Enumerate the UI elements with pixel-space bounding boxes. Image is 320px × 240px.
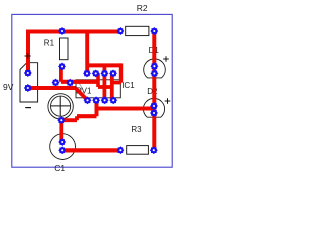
wire: y116 left to RV1 wiper column — [77, 114, 97, 118]
diode D2 outline — [143, 98, 164, 117]
wire: horizontal y65 branch — [87, 63, 121, 67]
wire: y87 link — [98, 85, 112, 89]
pads: battery — [24, 69, 32, 77]
wire: R1 bottom to bar — [59, 67, 63, 82]
pads: RV1 — [52, 79, 60, 87]
pads: D2 — [150, 102, 158, 110]
wire: IC pin column T4-B4 — [110, 74, 114, 101]
pads: R1 — [58, 27, 66, 35]
wire: IC pin column T3-B3 — [103, 65, 107, 100]
wire: branch to D2 at y108.5 — [97, 106, 155, 110]
wire: jog left at y82.6 — [112, 81, 121, 85]
wire: right rail R2 to R3 through D1 D2 — [152, 31, 156, 150]
pads: IC1 top row — [83, 69, 91, 77]
wire: diagonal to IC B1 — [76, 88, 88, 100]
svg-text:R3: R3 — [131, 125, 142, 134]
trimmer RV1 outer circle — [48, 94, 73, 119]
wire: top 9V+ rail — [26, 30, 120, 34]
wire: wiper down to C1 — [59, 120, 63, 142]
wire: battery - to RV1 left pad — [28, 86, 76, 90]
resistor R2 body — [126, 26, 149, 35]
svg-text:9V: 9V — [3, 82, 14, 92]
svg-text:R2: R2 — [137, 3, 148, 13]
wire: down at x121 — [119, 63, 123, 82]
trimmer RV1 inner circle — [51, 96, 71, 116]
pads: R2 — [116, 27, 124, 35]
svg-text:R1: R1 — [44, 39, 55, 48]
wire: C1 to R3 — [62, 148, 120, 152]
capacitor C1 outline — [50, 134, 76, 160]
trimmer RV1 slot cross — [51, 96, 71, 116]
svg-text:C1: C1 — [54, 163, 65, 173]
resistor R1 body — [60, 38, 69, 60]
wire: T2 stub down — [96, 73, 100, 87]
wire: rail branch down at x87 to IC pin T1 — [85, 32, 89, 74]
pads: D1 — [150, 62, 158, 70]
pads: R3 — [116, 146, 124, 154]
pads: IC1 bottom row — [84, 96, 92, 104]
diode D1 plus mark — [163, 56, 169, 62]
diode D1 outline — [144, 59, 166, 78]
battery plus mark — [25, 53, 31, 59]
IC1 pin-1 notch — [76, 83, 81, 94]
wire: battery + drop — [26, 33, 30, 73]
pads: C1 — [58, 138, 66, 146]
resistor R3 body — [127, 146, 149, 155]
board outline — [12, 14, 172, 167]
IC1 body outline — [76, 80, 120, 98]
wire: B2 stub down — [95, 100, 99, 116]
svg-text:IC1: IC1 — [122, 81, 135, 90]
wire: bar y82 R1/RV1 to IC — [61, 80, 98, 84]
battery connector 9V body — [20, 63, 38, 102]
wire: jog down x77 — [75, 116, 79, 120]
battery minus mark — [25, 107, 31, 109]
diode D2 plus mark — [165, 98, 171, 104]
wire: y120 to wiper pad — [61, 118, 77, 122]
